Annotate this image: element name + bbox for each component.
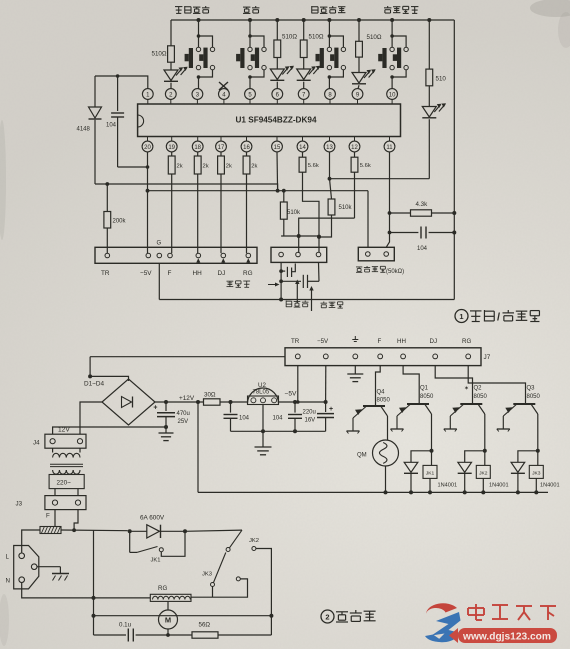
svg-text:JK3: JK3 — [202, 572, 212, 578]
wire neutral riser — [93, 531, 95, 636]
wire rail B — [148, 190, 369, 192]
relay coil JK1 — [431, 451, 433, 466]
LED D 果蔬冷饮A — [270, 69, 284, 80]
svg-text:−5V: −5V — [140, 270, 152, 277]
node t1 b — [279, 279, 283, 283]
strip2 terminal — [296, 252, 301, 257]
resistor 510R (pin6) — [274, 40, 281, 58]
svg-text:19: 19 — [168, 145, 175, 151]
pin 5 of U1 — [245, 89, 256, 100]
svg-text:25V: 25V — [178, 419, 189, 425]
svg-text:Q4: Q4 — [377, 390, 386, 396]
svg-text:2k: 2k — [177, 164, 183, 170]
relay contact JK1 — [129, 531, 131, 552]
node 470u bottom — [164, 425, 168, 429]
svg-text:DJ: DJ — [430, 338, 438, 345]
wire Q1 collector — [431, 414, 433, 451]
node neutral RG — [92, 596, 96, 600]
pushbutton 干豆湿豆 — [390, 18, 394, 22]
resistor 510 right — [426, 69, 433, 86]
connector J4 body — [45, 434, 86, 448]
svg-text:220u: 220u — [303, 410, 316, 416]
resistor 510k B — [328, 199, 335, 215]
wire J7 TR down — [297, 366, 299, 402]
svg-text:6A 600V: 6A 600V — [140, 515, 165, 522]
svg-text:30Ω: 30Ω — [204, 392, 216, 399]
diode 1N4001 c — [511, 462, 525, 472]
wire D to RG line — [191, 579, 248, 597]
strip2 terminal — [279, 252, 284, 257]
pin 15 of U1 — [276, 137, 278, 142]
strip1 terminal — [246, 253, 251, 258]
pin 14 of U1 — [302, 137, 304, 142]
svg-text:www.dgjs123.com: www.dgjs123.com — [462, 632, 551, 643]
capacitor 104 a — [230, 402, 232, 413]
node rail B pin20 — [146, 189, 150, 193]
diode 1N4001 a — [404, 462, 418, 472]
diode 4148 — [89, 107, 102, 118]
svg-text:78L05: 78L05 — [253, 390, 270, 396]
strip1 terminal — [157, 253, 162, 258]
contact circle B — [211, 583, 215, 587]
wire J3t2 drop — [74, 510, 78, 531]
resistor 510R (pin9) — [356, 41, 363, 57]
arrow 上水位 — [296, 283, 298, 304]
svg-text:(50kΩ): (50kΩ) — [386, 269, 404, 275]
svg-text:HH: HH — [193, 270, 203, 277]
pin 11 of U1 — [389, 137, 391, 142]
strip1 terminal — [168, 253, 173, 258]
node +12V tap — [196, 400, 200, 404]
svg-text:510k: 510k — [339, 205, 353, 211]
node relay rail — [534, 490, 538, 494]
wire RG left — [94, 597, 151, 599]
node rail B 510k — [282, 189, 286, 193]
svg-text:Q2: Q2 — [474, 386, 483, 392]
node L diode right — [183, 529, 187, 533]
svg-text:2: 2 — [325, 613, 329, 622]
svg-text:L: L — [6, 554, 10, 561]
svg-text:16: 16 — [243, 145, 250, 151]
svg-text:16V: 16V — [305, 418, 316, 424]
wire LED to pin2 — [170, 83, 172, 89]
label button 干豆湿豆 — [384, 6, 391, 13]
wire JK2 arm — [230, 530, 243, 548]
wire mains rail — [94, 615, 272, 617]
svg-text:Q3: Q3 — [527, 386, 536, 392]
LED D 干豆湿豆 — [352, 73, 366, 84]
node L diode left — [128, 529, 132, 533]
node pin11 R junction — [388, 211, 392, 215]
strip1 terminal arrow — [196, 258, 200, 262]
wire bus to R pin6 — [275, 18, 279, 22]
arrow 下水位 — [311, 289, 313, 311]
svg-text:JK2: JK2 — [479, 470, 488, 476]
wire bus to R510 right — [427, 18, 431, 22]
node relay rail — [481, 490, 485, 494]
svg-text:−5V: −5V — [285, 391, 298, 398]
resistor 5.6k pin12 — [354, 152, 356, 157]
wire diode col upper — [94, 76, 96, 107]
svg-text:F: F — [46, 513, 50, 520]
pin 10 of U1 — [387, 89, 398, 100]
node Q3 coll — [536, 449, 540, 453]
relay coil JK3 — [537, 451, 539, 466]
resistor 30R — [204, 399, 221, 405]
J7 terminal — [433, 354, 438, 359]
node pin11 C junction — [388, 231, 392, 235]
pin 8 of U1 — [325, 89, 336, 100]
wire JK3 arm — [214, 553, 226, 583]
svg-text:2k: 2k — [251, 164, 257, 170]
pin 18 of U1 — [197, 137, 199, 142]
wire box to J3 — [54, 489, 56, 496]
J7 terminal — [378, 354, 383, 359]
wire N to RG line — [22, 583, 94, 598]
wire mains to JK2 — [185, 530, 242, 531]
node relay rail — [409, 490, 413, 494]
svg-text:12: 12 — [351, 145, 358, 151]
wire cap to pin20 col — [118, 166, 148, 168]
J3 terminal 1 — [52, 500, 57, 505]
wire diode3 down — [517, 474, 519, 493]
transistor Q4 — [363, 405, 385, 407]
resistor 2k col F — [171, 152, 173, 156]
wire bus left end to R 五谷 — [170, 20, 172, 46]
node Q2 coll — [483, 449, 487, 453]
label 温度检测 (50k) — [356, 267, 362, 272]
wire t1 column — [280, 262, 282, 299]
ground 470u — [165, 427, 167, 433]
wire LED right to pin13 net — [330, 178, 429, 180]
pushbutton 五谷豆浆 — [197, 18, 201, 22]
svg-text:JK2: JK2 — [249, 538, 259, 544]
pin 17 of U1 — [220, 137, 222, 142]
wire diode2 down — [464, 474, 466, 493]
strip1 terminal — [146, 253, 151, 258]
svg-text:1N4001: 1N4001 — [540, 483, 560, 489]
pin 12 of U1 — [354, 137, 356, 142]
label J7 gnd — [352, 339, 358, 341]
wire J7 -5V down — [325, 366, 327, 402]
connector strip1 body — [95, 247, 257, 263]
wire U2 out — [279, 401, 326, 403]
pin 3 of U1 — [192, 89, 203, 100]
J7 terminal — [466, 354, 471, 359]
wire C to rail — [256, 549, 272, 616]
svg-text:13: 13 — [326, 145, 333, 151]
node rail C t3 — [317, 235, 321, 239]
wire QM down — [385, 466, 387, 492]
svg-text:8050: 8050 — [377, 397, 391, 403]
connector J3 body — [45, 496, 86, 510]
svg-text:17: 17 — [218, 145, 225, 151]
wire diode1 down — [410, 474, 412, 493]
resistor 510R (pin7) — [300, 40, 307, 58]
wire J7 HH to Q1 base — [403, 366, 419, 404]
svg-text:/: / — [497, 312, 500, 324]
svg-text:QM: QM — [357, 453, 367, 459]
node capc gnd — [293, 429, 297, 433]
wire pin1 top feed — [95, 76, 148, 89]
capacitor motor-shell A — [281, 270, 285, 272]
svg-text:J3: J3 — [16, 501, 23, 508]
node relay rail — [384, 490, 388, 494]
pin 19 of U1 — [171, 137, 173, 142]
wire LED to pin9 — [358, 85, 359, 89]
svg-text:510Ω: 510Ω — [367, 34, 382, 41]
node rail B pin15 — [276, 189, 280, 193]
svg-text:DJ: DJ — [218, 270, 226, 277]
LED D right — [422, 107, 436, 118]
wire M down — [167, 629, 169, 635]
wire Q3 collector — [537, 414, 539, 451]
wire diode1 branch — [411, 451, 432, 463]
wire fuse to L pin — [22, 530, 40, 553]
contact circle D — [236, 577, 240, 581]
wire bus to R pin9 — [357, 18, 361, 22]
resistor 510R (pin2) — [168, 46, 175, 62]
node -5V cap — [293, 400, 297, 404]
pin 2 of U1 — [165, 89, 176, 100]
wire B down — [212, 587, 214, 598]
strip1 terminal — [221, 253, 226, 258]
wire rail to J7 — [90, 356, 285, 358]
J7 terminal — [353, 354, 358, 359]
wire rail D — [299, 218, 355, 253]
svg-text:1N4001: 1N4001 — [438, 483, 458, 489]
plug pin N — [19, 577, 25, 583]
wire pin11 down — [386, 152, 389, 247]
svg-text:D1~D4: D1~D4 — [84, 381, 105, 388]
node right vert R — [452, 211, 456, 215]
wire Q2 collector — [484, 414, 486, 451]
resistor 200k — [104, 212, 111, 229]
wire J7 F to Q4 base — [376, 366, 381, 406]
resistor 2k col RG — [246, 152, 248, 156]
label button 五谷豆浆 — [175, 7, 182, 14]
relay coil JK2 — [484, 451, 486, 466]
label button 关机 — [243, 7, 250, 13]
wire LED right down — [428, 119, 430, 179]
wire pin15 down — [276, 152, 279, 191]
svg-text:0.1u: 0.1u — [119, 622, 132, 629]
svg-text:8050: 8050 — [420, 394, 434, 400]
node t3 junction — [317, 235, 321, 239]
wire 510kB to rail D — [331, 215, 333, 231]
ground earth — [52, 573, 69, 575]
J7 terminal — [295, 354, 300, 359]
wire rail B to thermistor conn — [367, 191, 369, 248]
wire relay rail +12V — [198, 491, 548, 493]
node relay rail — [428, 490, 432, 494]
pin 9 of U1 — [352, 89, 363, 100]
wire TR col upper — [106, 184, 108, 212]
buzzer QM — [373, 440, 399, 466]
transformer core — [50, 463, 83, 465]
svg-text:8050: 8050 — [474, 394, 488, 400]
node U2 in — [229, 400, 233, 404]
wire earth — [37, 566, 60, 568]
wire +12V drop to relay rail — [197, 402, 199, 492]
svg-text:104: 104 — [106, 123, 117, 129]
svg-text:HH: HH — [397, 338, 406, 345]
svg-text:J4: J4 — [33, 440, 40, 447]
svg-text:4.3k: 4.3k — [416, 201, 429, 208]
scan smudge left edge — [0, 120, 6, 240]
label button 果蔬冷饮 — [312, 6, 318, 13]
watermark logo — [426, 603, 457, 614]
resistor 510k A — [283, 191, 285, 202]
svg-text:F: F — [168, 270, 172, 277]
svg-text:RG: RG — [243, 270, 253, 277]
transformer primary box 220~ — [49, 475, 84, 489]
svg-text:20: 20 — [144, 145, 151, 151]
ground J7 below — [354, 366, 356, 374]
node rail JK2 — [269, 614, 273, 618]
capacitor 104 c — [294, 402, 296, 413]
svg-text:M: M — [165, 616, 171, 625]
resistor 56R — [192, 632, 218, 638]
wire diode3 branch — [518, 451, 538, 463]
pin 20 of U1 — [147, 137, 149, 142]
svg-text:RG: RG — [158, 585, 167, 592]
wire pin13 down — [329, 152, 331, 179]
svg-text:56Ω: 56Ω — [199, 622, 211, 629]
svg-text:✶: ✶ — [464, 385, 469, 392]
svg-text:J7: J7 — [484, 354, 491, 361]
wire to bridge top — [90, 376, 128, 381]
node bridge feed — [88, 374, 92, 378]
strip1 terminal arrow — [246, 258, 250, 262]
pushbutton 关机 — [248, 18, 252, 22]
wire pin20 to -5V terminal — [147, 152, 149, 253]
heater RG body — [150, 594, 191, 601]
wire TR col lower — [106, 228, 108, 253]
wire R to LED pin6 — [276, 58, 278, 70]
bridge rectifier D1-D4 — [102, 379, 155, 425]
diode 1N4001 b — [458, 462, 472, 472]
wire left drop — [89, 357, 91, 377]
pin 6 of U1 — [272, 89, 283, 100]
svg-text:JK1: JK1 — [426, 470, 435, 476]
node bottom rail t1 — [279, 298, 283, 302]
svg-text:104: 104 — [239, 416, 250, 422]
node top-left junction — [116, 74, 120, 78]
pin 13 of U1 — [329, 137, 331, 142]
resistor 2k col HH — [197, 152, 199, 156]
wire R to LED pin2 — [170, 62, 172, 70]
regulator U2 78L05 — [248, 388, 279, 404]
svg-text:RG: RG — [462, 338, 471, 345]
connector strip2 body — [271, 247, 327, 262]
capacitor 0.1u — [94, 634, 127, 636]
svg-text:15: 15 — [274, 145, 281, 151]
node 470u top — [164, 400, 168, 404]
wire diode col lower — [94, 120, 96, 184]
svg-text:Q1: Q1 — [420, 386, 429, 392]
wire R to LED right — [428, 86, 430, 107]
wire J3t1 to fuse — [54, 510, 56, 527]
svg-text:10: 10 — [389, 92, 396, 98]
wire pin14 jog — [303, 172, 320, 252]
wire LED to pin7 — [303, 82, 305, 89]
resistor 5.6k pin14 — [302, 152, 304, 157]
wire rail C — [281, 235, 319, 237]
transistor Q3 — [513, 403, 535, 405]
transistor Q1 — [407, 403, 429, 405]
svg-text:510Ω: 510Ω — [152, 51, 167, 58]
capacitor 104 top-left — [117, 76, 119, 111]
wire U2 bottom rail — [231, 430, 326, 432]
svg-text:+: + — [153, 405, 157, 412]
label 下水位 — [321, 302, 328, 308]
wire rail A — [95, 184, 278, 191]
wire J7 RG to Q3 base — [468, 366, 525, 404]
pin 1 of U1 — [142, 89, 153, 100]
label 电机壳 — [227, 281, 234, 286]
svg-text:N: N — [6, 578, 10, 585]
resistor 4.3k — [390, 212, 411, 214]
pin 16 of U1 — [246, 137, 248, 142]
wire R to LED pin7 — [303, 58, 305, 70]
wire bridge out — [155, 401, 204, 403]
pin 4 of U1 — [219, 89, 230, 100]
watermark title 电工天下 — [468, 604, 484, 620]
svg-text:5.6k: 5.6k — [308, 163, 319, 169]
svg-text:4148: 4148 — [77, 127, 91, 133]
wire t3 below strip — [318, 262, 321, 281]
no-connect X pin4 — [219, 82, 228, 90]
svg-text:220~: 220~ — [57, 480, 72, 487]
node relay rail — [516, 490, 520, 494]
svg-text:510Ω: 510Ω — [282, 34, 297, 41]
connector 温度检测 body — [358, 247, 394, 260]
wire U2 gnd pin — [262, 405, 264, 432]
ground U2 — [262, 431, 264, 447]
contact circle C — [252, 547, 256, 551]
svg-text:TR: TR — [291, 338, 300, 345]
transformer secondary coil — [52, 448, 54, 452]
svg-text:TR: TR — [101, 270, 110, 277]
wire bus to R pin7 — [302, 18, 306, 22]
svg-text:104: 104 — [273, 416, 284, 422]
svg-text:F: F — [378, 338, 382, 345]
svg-text:510Ω: 510Ω — [309, 34, 324, 41]
thermistor terminal 2 — [384, 252, 389, 257]
svg-text:104: 104 — [417, 246, 428, 252]
op-amp U1 body — [138, 104, 401, 137]
svg-text:−5V: −5V — [317, 338, 329, 345]
node fuse J3t2 — [72, 528, 76, 532]
strip1 terminal — [196, 253, 201, 258]
svg-text:G: G — [157, 241, 162, 247]
wire diode2 branch — [465, 451, 485, 463]
svg-text:JK1: JK1 — [151, 558, 161, 564]
svg-text:+12V: +12V — [179, 395, 195, 402]
plug pin L — [19, 553, 25, 559]
pushbutton 果蔬冷饮 — [327, 18, 331, 22]
fuse F — [40, 527, 61, 534]
wire bottom rail top-section — [159, 299, 454, 301]
U1 notch — [138, 115, 144, 127]
svg-text:U2: U2 — [258, 382, 266, 389]
J7 terminal — [323, 354, 328, 359]
plug body — [14, 546, 39, 589]
wire G col down — [158, 263, 160, 299]
wire Q4 collector to QM — [387, 416, 389, 440]
svg-text:200k: 200k — [113, 219, 127, 225]
